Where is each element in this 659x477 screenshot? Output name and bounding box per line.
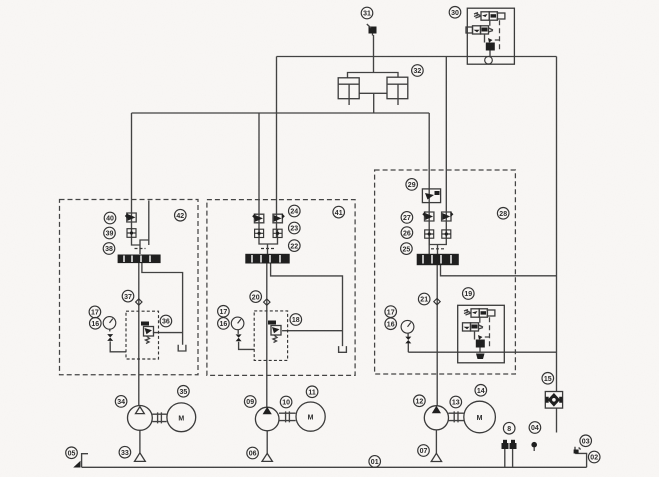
label circle 16 <box>90 318 102 330</box>
label circle 28 <box>497 208 509 220</box>
label circle 19 <box>463 288 475 300</box>
reducing valve 29 <box>422 189 440 203</box>
throttle check valve 27 left <box>422 211 434 221</box>
arrow at tank line left end <box>73 461 80 468</box>
label circle 38 <box>103 243 115 255</box>
wire block41 pump main line <box>266 264 268 408</box>
relief valve in block30 <box>485 20 495 56</box>
label circle 24 <box>289 205 301 217</box>
motor 11 <box>296 402 325 431</box>
label circle 17 <box>385 306 397 318</box>
label circle 17 <box>218 306 230 318</box>
tank bracket block41 <box>339 346 347 352</box>
check valves item 8 <box>502 440 517 468</box>
label circle 29 <box>406 179 418 191</box>
label circle 07 <box>418 445 430 457</box>
wire cylinder rod-end connector <box>359 92 387 94</box>
shuttle square 39 <box>127 229 136 238</box>
label circle 05 <box>66 447 78 459</box>
shuttle square 23 left <box>255 229 264 237</box>
label circle 36 <box>160 315 172 327</box>
drain plug item 04 <box>531 442 537 451</box>
throttle check valve 27 right <box>442 211 454 221</box>
label circle 17 <box>89 306 101 318</box>
label circle 41 <box>333 206 345 218</box>
label circle 40 <box>104 212 116 224</box>
relief valve in block19 <box>475 317 485 352</box>
suction strainer 06 <box>262 453 272 461</box>
label circle 34 <box>115 396 127 408</box>
node 37 diamond <box>136 299 142 305</box>
wire block41 relief out <box>282 330 342 332</box>
pump09 suction line <box>266 431 268 454</box>
pump34 suction line <box>139 430 141 452</box>
pump 12 <box>424 406 448 430</box>
directional valve block28 <box>417 254 459 265</box>
wire drop from y113 into block41 x=259 <box>258 113 260 238</box>
gauge isolator valve block41 <box>236 334 242 341</box>
wire drop from y113 into block42 x=131.5 <box>131 113 133 238</box>
solenoid valve in block30 <box>474 12 505 20</box>
pilot valve in block19 <box>463 323 484 331</box>
relief valve 18 <box>268 321 281 343</box>
pump12 suction line <box>435 430 437 454</box>
label circle 33 <box>119 446 131 458</box>
label circle 35 <box>178 386 190 398</box>
relief box 18 <box>254 311 287 361</box>
throttle check valve 40 <box>125 213 136 222</box>
label circle 26 <box>401 227 413 239</box>
label circle 37 <box>122 290 134 302</box>
pilot dash block28 funnel <box>431 248 444 250</box>
label circle 15 <box>542 373 554 385</box>
dashed enclosure box 28 <box>375 170 516 374</box>
valve 31 <box>367 24 377 36</box>
gauge 16 block42 <box>103 317 116 332</box>
wire right riser lower stub <box>556 409 558 433</box>
breather item 03 <box>574 447 581 454</box>
wire main brake line y=113 <box>132 112 430 114</box>
gauge isolator valve block42 <box>107 334 113 341</box>
suction strainer 07 <box>431 453 441 461</box>
label circle 01 <box>369 456 381 468</box>
label circle 31 <box>361 7 373 19</box>
shuttle square 23 right <box>273 229 282 237</box>
wire block41 valve return to tank <box>271 264 343 347</box>
label circle 16 <box>385 318 397 330</box>
pilot dash block41 funnel <box>261 248 274 250</box>
wire block42 funnel <box>132 238 149 245</box>
wire right riser x=556 <box>556 57 558 392</box>
filter 15 <box>545 392 562 409</box>
label circle 12 <box>414 395 426 407</box>
pilot valve in block30 <box>466 26 493 34</box>
node 21 diamond <box>434 298 440 304</box>
directional valve block42 <box>118 255 161 264</box>
wire block28 valve return to right riser <box>441 265 557 276</box>
label circle 30 <box>449 7 461 19</box>
label circle 13 <box>450 396 462 408</box>
gauge 16 block41 <box>231 317 244 334</box>
wire block41 gauge drain <box>239 342 255 350</box>
tank line right step <box>575 453 586 467</box>
label circle 04 <box>529 422 541 434</box>
wire top pilot line y=56 <box>277 56 557 58</box>
label circle 42 <box>175 209 187 221</box>
cylinder 32 right <box>387 77 408 105</box>
tank bracket block42 <box>178 345 186 351</box>
relief valve 36 <box>141 322 154 344</box>
throttle check valve 24 left <box>252 213 264 223</box>
throttle check valve 24 right <box>273 213 285 223</box>
label circle 02 <box>588 451 600 463</box>
label circle 06 <box>247 447 259 459</box>
label circle 22 <box>289 240 301 252</box>
pump 34 <box>127 406 152 431</box>
pump 09 <box>255 407 279 431</box>
wire valve31 to cylinder fork <box>373 35 375 73</box>
tank line left step item05 <box>82 454 88 468</box>
wire block28 pump main line <box>436 265 438 406</box>
gauge port circle in block30 <box>485 56 493 64</box>
label circle 8 <box>503 422 515 434</box>
label circle 21 <box>418 293 430 305</box>
wire block28 funnel <box>429 239 446 255</box>
wire cylinder to main line <box>373 93 375 113</box>
gauge 16 block28 <box>401 320 414 336</box>
label circle 10 <box>280 396 292 408</box>
label circle 16 <box>218 318 230 330</box>
directional valve block41 <box>245 254 289 264</box>
label circle 14 <box>475 385 487 397</box>
wire block28 lower drain to right riser <box>408 351 556 353</box>
wire block42 return riser to box edge <box>140 201 149 255</box>
cylinder 32 left <box>338 78 359 105</box>
label circle 39 <box>104 227 116 239</box>
dashed pilot line in block30 <box>495 20 500 52</box>
wire cylinder fork bracket <box>348 73 399 78</box>
coupling pump09-motor11 <box>279 411 296 422</box>
wire block28 gauge drain <box>407 343 409 352</box>
wire block42 valve return to tank <box>142 263 183 345</box>
label circle 25 <box>401 243 413 255</box>
motor 14 <box>464 401 496 433</box>
wire block41 funnel <box>259 238 278 255</box>
gauge isolator valve block28 <box>405 337 411 344</box>
label circle 20 <box>250 291 262 303</box>
label circle 32 <box>412 65 424 77</box>
solenoid valve in block19 <box>464 309 495 317</box>
dashed enclosure box 41 <box>207 200 355 376</box>
drain fitting in block19 <box>476 354 485 360</box>
label circle 23 <box>289 222 301 234</box>
shuttle square 26 right <box>442 230 451 238</box>
pilot dash block42 funnel <box>135 248 146 250</box>
wire block42 pump main line <box>138 263 140 406</box>
wire drop from y113 into block28 x=429 <box>428 113 430 254</box>
coupling pump34-motor35 <box>152 412 166 423</box>
wire drop from y56 into block28 x=446.3 <box>445 57 447 240</box>
node 20 diamond <box>264 299 270 305</box>
wire block42 relief out <box>153 332 183 334</box>
label circle 27 <box>401 212 413 224</box>
dashed pilot line in block19 <box>485 317 490 349</box>
tank line <box>82 466 587 468</box>
motor 35 <box>167 403 196 432</box>
valve block 19 enclosure <box>458 305 505 363</box>
suction strainer 33 <box>134 453 145 462</box>
label circle 18 <box>290 314 302 326</box>
coupling pump12-motor14 <box>449 411 464 422</box>
relief box 36 <box>126 311 159 359</box>
dashed enclosure box 42 <box>60 200 199 375</box>
shuttle square 26 left <box>425 230 434 238</box>
wire block42 gauge drain <box>110 341 126 351</box>
valve block 30 enclosure <box>467 8 514 64</box>
wire drop from y56 into block41 x=276.5 <box>276 57 278 238</box>
label circle 11 <box>306 386 318 398</box>
label circle 09 <box>244 396 256 408</box>
label circle 03 <box>580 435 592 447</box>
